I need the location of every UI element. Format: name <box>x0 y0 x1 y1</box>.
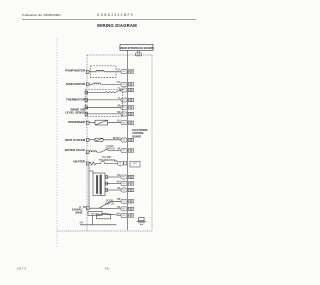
svg-text:BK: BK <box>83 207 87 209</box>
svg-text:PL1: PL1 <box>122 140 125 142</box>
door switch label <box>105 200 115 206</box>
svg-text:PL1: PL1 <box>122 209 125 211</box>
dispenser wire <box>89 122 121 124</box>
user interface board box <box>120 44 153 50</box>
float switch contact <box>101 149 121 152</box>
svg-text:PL1: PL1 <box>122 100 125 102</box>
svg-text:2: 2 <box>132 140 133 142</box>
svg-text:2: 2 <box>132 122 133 124</box>
connector row GY y=71.5 <box>121 70 127 74</box>
svg-text:PL1: PL1 <box>122 190 125 192</box>
svg-text:WIRING DIAGRAM: WIRING DIAGRAM <box>97 23 137 28</box>
svg-text:2: 2 <box>132 201 133 203</box>
connector row WH y=183.5 <box>121 182 127 186</box>
water valve connector <box>86 151 89 154</box>
neutral wire <box>102 213 121 215</box>
vent system connector <box>86 138 89 141</box>
left margin dashed line <box>56 38 58 247</box>
svg-text:RD: RD <box>117 175 121 177</box>
heater connector pair <box>118 161 123 165</box>
connector row VIO y=84.3 <box>121 82 127 86</box>
svg-text:PL1: PL1 <box>122 215 125 217</box>
svg-text:PL1: PL1 <box>122 107 125 109</box>
connector row BK y=208.9 <box>121 207 127 211</box>
svg-text:2: 2 <box>132 183 133 185</box>
heater drop into sensor <box>89 165 93 173</box>
rinse aid wire <box>86 106 121 108</box>
left rail drop <box>88 171 90 207</box>
main motor winding <box>93 83 101 84</box>
control board bus <box>126 50 128 230</box>
dispenser connector <box>86 121 89 124</box>
connector row BK/WH y=140.0 <box>121 138 127 142</box>
svg-text:BR: BR <box>117 199 121 201</box>
connector row BU y=122.7 <box>121 121 127 125</box>
bus connector rows <box>118 70 140 218</box>
svg-text:3: 3 <box>129 107 130 109</box>
svg-text:WH: WH <box>117 181 121 183</box>
svg-text:PL1: PL1 <box>122 177 125 179</box>
svg-text:RY1: RY1 <box>133 163 137 165</box>
turbidity vertical label columns <box>96 175 98 194</box>
svg-text:PL1: PL1 <box>122 183 125 185</box>
svg-text:PL1: PL1 <box>122 122 125 124</box>
svg-text:THERMISTOR: THERMISTOR <box>66 98 86 102</box>
main motor wire <box>89 83 121 85</box>
svg-text:DISPENSER: DISPENSER <box>68 120 86 124</box>
heater element zigzag <box>89 162 97 165</box>
svg-text:3: 3 <box>129 100 130 102</box>
connector row BK y=150.5 <box>121 149 127 153</box>
door switch circuit <box>86 201 121 209</box>
svg-text:3: 3 <box>129 114 130 116</box>
svg-text:WATER VALVE: WATER VALVE <box>65 148 85 152</box>
svg-text:GY: GY <box>117 69 121 71</box>
thermistor dashed box <box>86 89 123 116</box>
svg-text:2: 2 <box>132 190 133 192</box>
svg-text:USER INTERFACE BOARD: USER INTERFACE BOARD <box>119 46 153 50</box>
pump motor dashed box <box>91 66 117 77</box>
electronic control board label <box>132 129 148 139</box>
main motor connector <box>86 83 89 86</box>
svg-text:3: 3 <box>129 150 130 152</box>
water valve winding <box>89 151 101 152</box>
svg-text:VENT SYSTEM: VENT SYSTEM <box>65 138 86 142</box>
heater connector <box>86 162 89 165</box>
svg-text:2: 2 <box>132 84 133 86</box>
svg-text:3: 3 <box>129 84 130 86</box>
svg-text:2: 2 <box>132 177 133 179</box>
connector row BK y=190.0 <box>121 188 127 192</box>
diagram outer box <box>57 55 152 231</box>
vent actuator <box>95 138 103 141</box>
svg-text:60HZ: 60HZ <box>75 211 82 215</box>
svg-text:2: 2 <box>132 71 133 73</box>
svg-text:PL: PL <box>119 163 121 165</box>
svg-text:HEATER: HEATER <box>73 159 86 163</box>
svg-text:BK: BK <box>117 148 121 150</box>
turbidity wires <box>89 165 121 207</box>
thermistor wire b <box>86 99 121 101</box>
svg-text:PL1: PL1 <box>122 84 125 86</box>
connector row RD y=177.0 <box>121 175 127 179</box>
dashed-box edge connectors <box>85 91 88 94</box>
UI connector <box>136 53 142 56</box>
svg-text:5973: 5973 <box>17 267 27 271</box>
header rule <box>22 19 196 21</box>
svg-text:BR: BR <box>117 112 121 114</box>
ground loop <box>80 215 117 225</box>
hi-limit thermostat <box>97 162 118 164</box>
svg-text:PL1: PL1 <box>122 150 125 152</box>
svg-text:THERMOSTAT: THERMOSTAT <box>99 159 116 162</box>
UI connector stubs <box>136 50 138 53</box>
svg-text:2: 2 <box>132 114 133 116</box>
svg-text:DGBD2432MF0: DGBD2432MF0 <box>97 13 134 17</box>
connector row BR y=201.3 <box>121 199 127 203</box>
pump motor connector <box>86 70 89 73</box>
hi-limit label <box>99 156 116 162</box>
svg-text:SWITCH: SWITCH <box>105 148 115 151</box>
connector row YL y=90.0 <box>121 88 127 92</box>
svg-text:2: 2 <box>132 150 133 152</box>
svg-text:3: 3 <box>129 190 130 192</box>
svg-text:-16-: -16- <box>104 267 110 271</box>
neutral box <box>88 211 102 215</box>
connector row WH y=215.5 <box>121 214 127 218</box>
svg-text:3: 3 <box>129 215 130 217</box>
svg-text:3: 3 <box>129 177 130 179</box>
svg-text:PL1: PL1 <box>122 201 125 203</box>
pump motor wire <box>89 71 121 73</box>
svg-text:3: 3 <box>129 90 130 92</box>
wire colour labels <box>113 69 121 215</box>
svg-text:LEVEL SENSE: LEVEL SENSE <box>65 111 85 115</box>
svg-text:3: 3 <box>129 183 130 185</box>
connector row OR y=107.4 <box>121 105 127 109</box>
pump motor winding <box>96 70 104 72</box>
svg-text:3: 3 <box>129 201 130 203</box>
svg-text:2: 2 <box>132 100 133 102</box>
svg-text:Publication No. 5995539901: Publication No. 5995539901 <box>22 13 61 17</box>
svg-text:3: 3 <box>129 140 130 142</box>
connector row BR y=114.0 <box>121 112 127 116</box>
connector row YL y=100.0 <box>121 98 127 102</box>
earth ground symbol <box>137 217 146 224</box>
svg-text:2: 2 <box>132 90 133 92</box>
dispenser actuator <box>95 120 108 125</box>
svg-text:GR: GR <box>80 223 84 225</box>
svg-text:BU: BU <box>117 121 121 123</box>
svg-text:PL1: PL1 <box>122 71 125 73</box>
svg-text:PL1: PL1 <box>122 114 125 116</box>
turbidity sensor box <box>93 173 105 196</box>
svg-text:BK: BK <box>117 188 121 190</box>
heater relay box <box>130 161 140 167</box>
svg-text:MAIN MOTOR: MAIN MOTOR <box>66 82 86 86</box>
component labels (left column) <box>65 69 86 215</box>
svg-text:PL1: PL1 <box>122 90 125 92</box>
svg-text:VIO: VIO <box>116 82 120 84</box>
vent system wire <box>89 139 121 141</box>
connector pin labels <box>119 71 136 217</box>
svg-text:P2: P2 <box>137 54 139 56</box>
svg-text:2: 2 <box>132 209 133 211</box>
svg-text:2: 2 <box>132 107 133 109</box>
svg-text:PUMP MOTOR: PUMP MOTOR <box>65 69 86 73</box>
float switch label <box>105 145 115 151</box>
svg-text:3: 3 <box>129 71 130 73</box>
svg-text:BK: BK <box>117 207 121 209</box>
level sense wire <box>86 113 121 115</box>
svg-text:OR: OR <box>117 105 121 107</box>
thermistor wire a (squiggle) <box>86 90 121 92</box>
svg-text:2: 2 <box>132 215 133 217</box>
svg-text:3: 3 <box>129 209 130 211</box>
svg-text:3: 3 <box>129 122 130 124</box>
